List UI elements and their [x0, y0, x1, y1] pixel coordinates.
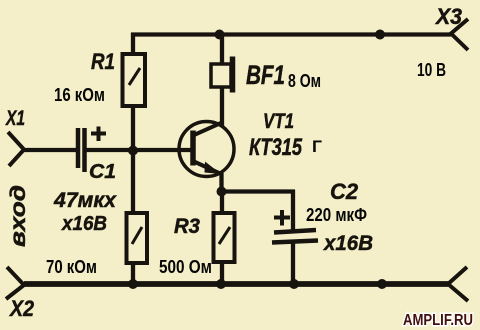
terminal X3 fork [451, 19, 468, 50]
svg-text:вход: вход [7, 185, 30, 247]
wire node to R3 top [220, 192, 224, 213]
svg-text:х16В: х16В [323, 232, 373, 255]
svg-text:220 мкФ: 220 мкФ [306, 205, 367, 225]
wire R1 bottom to base node [131, 105, 135, 152]
terminal output fork bottom right [448, 267, 468, 301]
svg-text:X3: X3 [434, 4, 462, 29]
wire bottom rail [24, 281, 448, 287]
svg-text:10 В: 10 В [417, 60, 446, 80]
svg-text:500 Ом: 500 Ом [159, 257, 212, 277]
node bottom C2 junction [289, 279, 299, 289]
node bottom R2 junction [128, 279, 138, 289]
svg-text:8 Ом: 8 Ом [288, 71, 321, 91]
svg-text:X2: X2 [8, 296, 34, 321]
wire base node to R2 top [131, 150, 135, 213]
wire top rail [131, 32, 451, 36]
svg-text:C2: C2 [330, 179, 359, 204]
wire R3 bottom [220, 261, 224, 285]
terminal X1 fork [8, 132, 24, 166]
svg-text:КТ315: КТ315 [249, 134, 302, 161]
node base junction [128, 146, 138, 156]
transistor VT1 [179, 122, 234, 177]
svg-text:х16В: х16В [61, 213, 107, 235]
svg-text:AMPLIF.RU: AMPLIF.RU [403, 312, 473, 329]
wire BF1 top [220, 34, 224, 65]
resistor R3 [214, 213, 235, 262]
speaker BF1 [211, 57, 233, 93]
svg-text:BF1: BF1 [246, 60, 285, 90]
svg-text:70 кОм: 70 кОм [46, 257, 97, 277]
resistor R1 [123, 54, 146, 106]
capacitor C2 (electrolytic) [272, 210, 318, 243]
node bottom R3 junction [216, 279, 226, 289]
wire corner to R1 top [131, 33, 135, 54]
wire C2 top lead [291, 190, 295, 230]
svg-text:R3: R3 [174, 215, 200, 238]
svg-text:C1: C1 [89, 161, 116, 183]
resistor R2 [127, 213, 148, 263]
svg-text:47мкх: 47мкх [53, 189, 117, 212]
svg-text:VT1: VT1 [263, 110, 294, 133]
node top BF1 junction [215, 30, 225, 40]
wire emitter down [219, 173, 223, 192]
wire R2 bottom [131, 262, 135, 285]
svg-text:16 кОм: 16 кОм [54, 85, 105, 105]
svg-text:Г: Г [312, 137, 322, 156]
wire emitter node to C2 [221, 189, 295, 193]
wire C2 bottom lead [291, 242, 295, 285]
terminal X2 fork [6, 267, 24, 299]
node emitter junction [217, 187, 227, 197]
wire C1 to base [85, 148, 191, 152]
svg-text:R1: R1 [91, 49, 115, 74]
capacitor C1 [78, 127, 106, 173]
wire BF1 bottom to collector [220, 86, 224, 126]
wire X1 to C1 [23, 148, 77, 152]
node bottom right junction [377, 279, 387, 289]
svg-text:X1: X1 [5, 107, 25, 130]
node top right junction [375, 30, 385, 40]
